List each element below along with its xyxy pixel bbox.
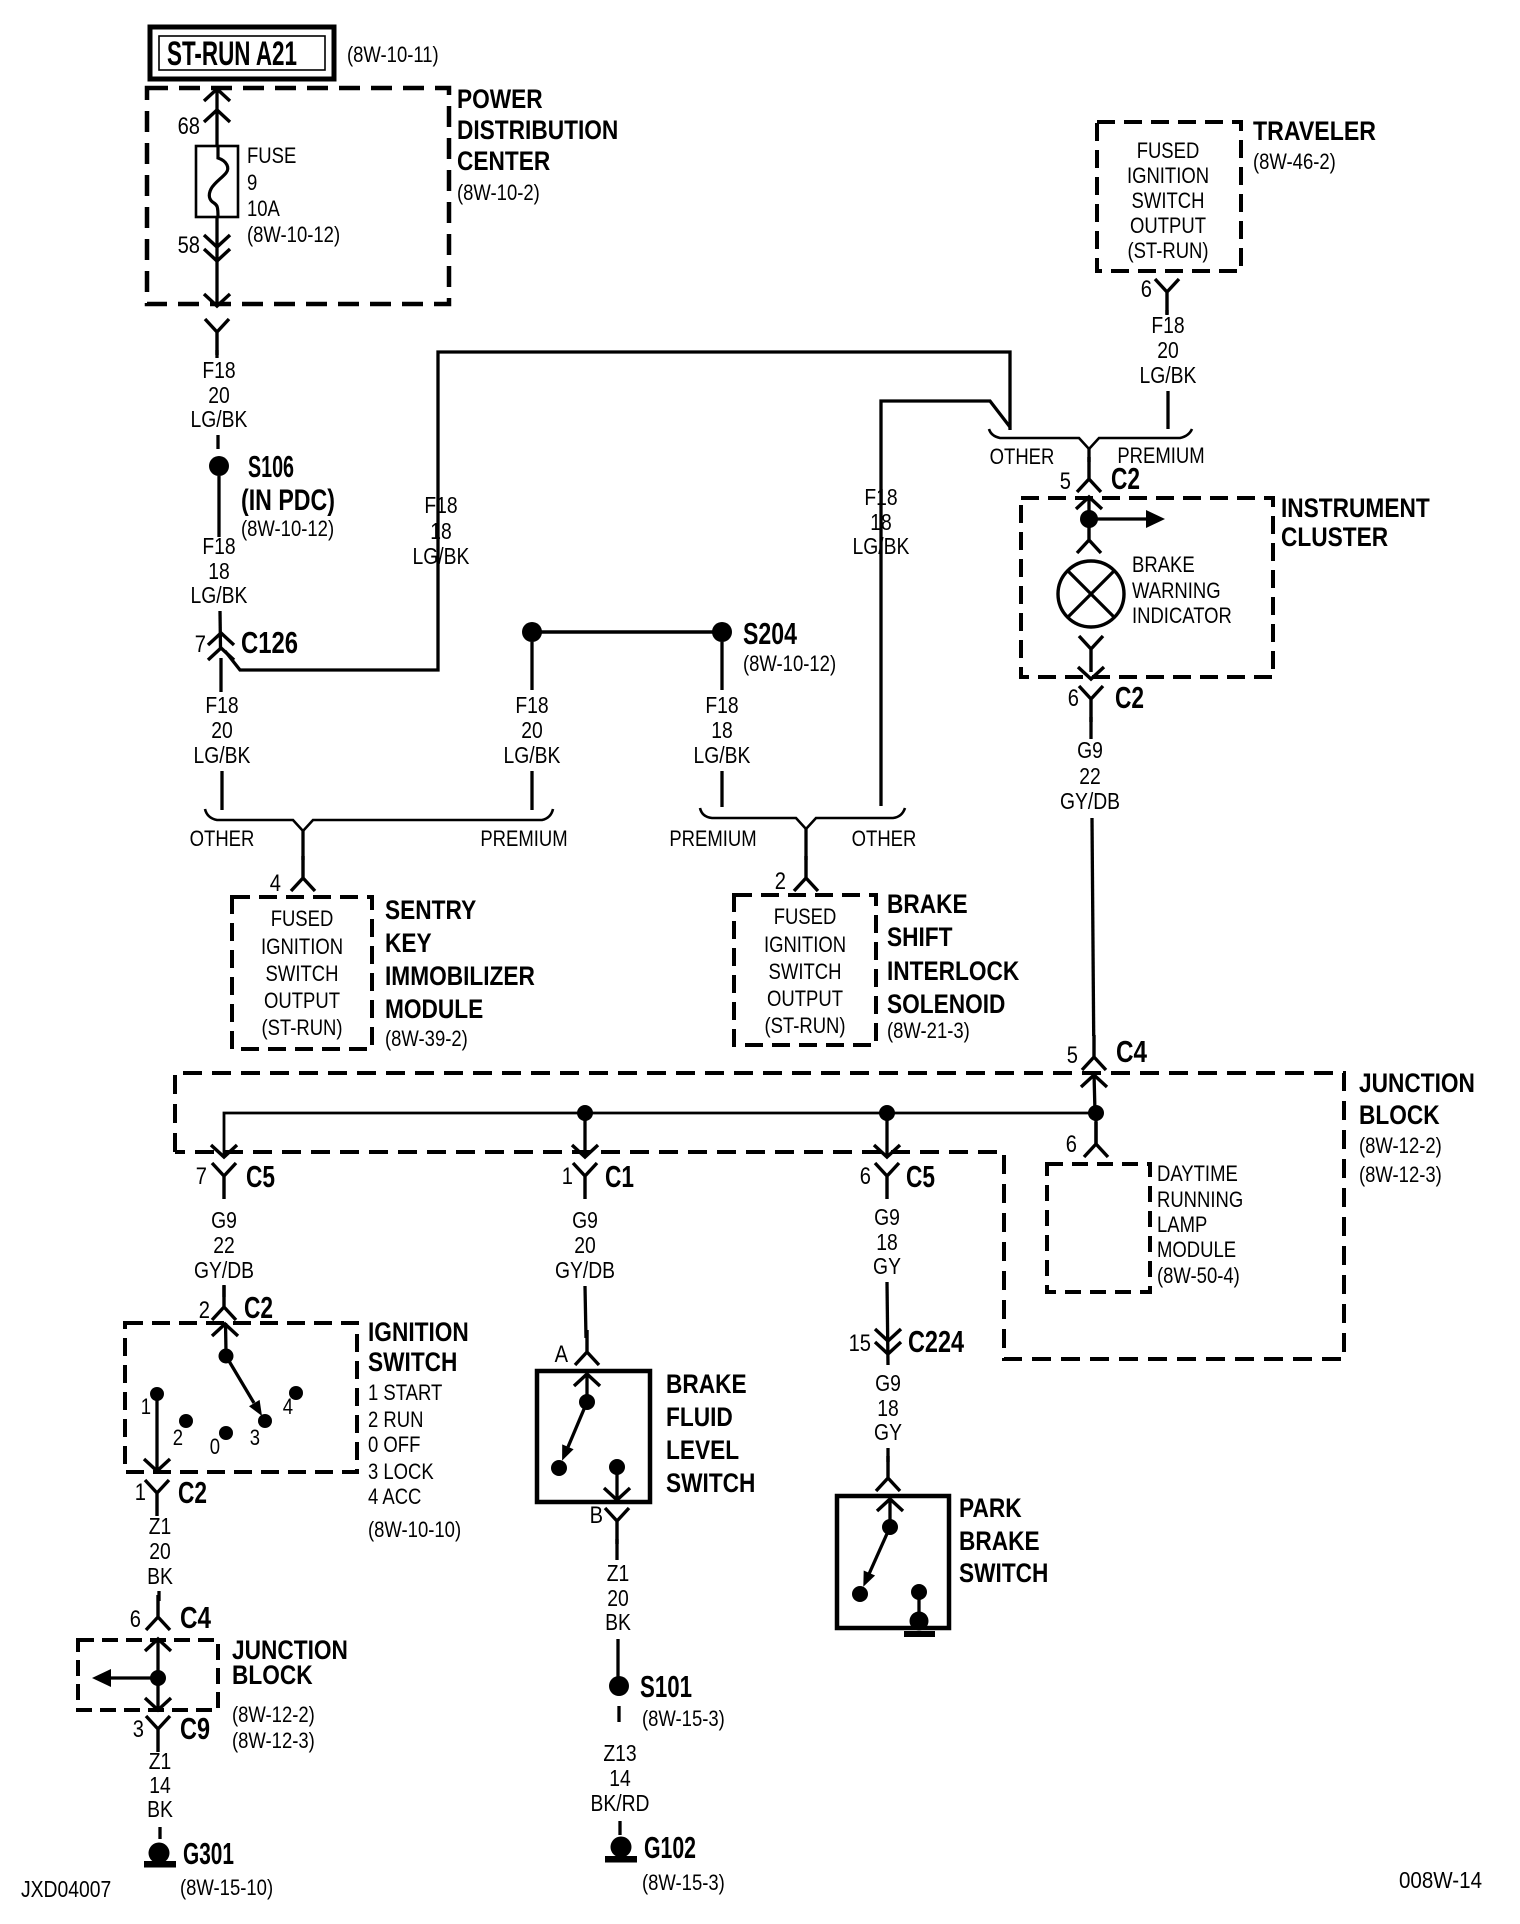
svg-text:GY: GY: [873, 1253, 901, 1279]
wire to premium hook: [530, 771, 533, 810]
wire fuse to PDC exit (pin 58): [215, 217, 218, 304]
node bus splice DRL: [1088, 1105, 1104, 1121]
wire inside junction block 2: [156, 1640, 159, 1709]
svg-text:22: 22: [1079, 763, 1101, 789]
label PARK BRAKE SWITCH: [959, 1493, 1048, 1588]
svg-text:18: 18: [208, 558, 230, 584]
svg-text:10A: 10A: [247, 196, 280, 221]
svg-text:LG/BK: LG/BK: [194, 742, 251, 768]
svg-text:ST-RUN A21: ST-RUN A21: [167, 35, 297, 73]
node cluster splice with arrow: [1080, 510, 1165, 528]
wire label G9 18 GY: [874, 1370, 902, 1445]
wire to premium hook: [1166, 391, 1169, 429]
svg-text:(8W-10-12): (8W-10-12): [743, 651, 836, 676]
svg-text:C9: C9: [180, 1711, 210, 1746]
svg-text:C5: C5: [246, 1159, 275, 1194]
svg-text:(8W-10-12): (8W-10-12): [247, 222, 340, 247]
contact 4: [289, 1386, 303, 1400]
svg-text:(8W-12-3): (8W-12-3): [1359, 1162, 1442, 1187]
svg-text:C2: C2: [1111, 461, 1140, 496]
label IGNITION SWITCH positions: [368, 1317, 469, 1542]
svg-text:DAYTIME: DAYTIME: [1157, 1161, 1238, 1186]
svg-text:S106: S106: [248, 449, 294, 484]
label INSTRUMENT CLUSTER: [1281, 493, 1430, 552]
wire into switch: [224, 1323, 228, 1352]
svg-text:3: 3: [133, 1716, 144, 1743]
svg-text:(8W-39-2): (8W-39-2): [385, 1026, 468, 1051]
connector A: [575, 1330, 599, 1365]
svg-text:5: 5: [1060, 468, 1071, 495]
wire to C126: [218, 611, 222, 648]
wire into junction block: [1094, 1073, 1095, 1113]
svg-text:GY/DB: GY/DB: [194, 1257, 254, 1283]
text FUSED IGNITION SWITCH OUTPUT (ST-RUN): [1127, 138, 1209, 263]
daytime running lamp module box: [1047, 1164, 1150, 1292]
label S204: [743, 616, 836, 676]
wire below C2: [1089, 717, 1092, 739]
svg-text:SWITCH: SWITCH: [769, 959, 842, 984]
svg-text:3: 3: [250, 1425, 260, 1450]
svg-text:SWITCH: SWITCH: [266, 961, 339, 986]
svg-text:20: 20: [521, 717, 543, 743]
switch contact top: [579, 1394, 595, 1410]
brake warning indicator lamp: [1058, 561, 1124, 627]
park switch contact right: [911, 1584, 927, 1600]
svg-text:0: 0: [210, 1434, 220, 1459]
wire label G9 22 GY/DB: [1060, 737, 1120, 814]
connector into park brake switch: [876, 1456, 900, 1491]
svg-text:18: 18: [877, 1395, 899, 1421]
svg-text:POWER: POWER: [457, 84, 543, 114]
svg-text:5: 5: [1067, 1042, 1078, 1069]
svg-text:S101: S101: [640, 1669, 692, 1704]
wire label Z13 14 BK/RD: [591, 1740, 650, 1816]
wire segment to splice: [216, 435, 219, 449]
svg-text:0 OFF: 0 OFF: [368, 1432, 420, 1457]
svg-text:F18: F18: [202, 533, 235, 559]
svg-text:(8W-15-10): (8W-15-10): [180, 1875, 273, 1900]
svg-text:PREMIUM: PREMIUM: [480, 826, 567, 851]
svg-text:18: 18: [876, 1229, 898, 1255]
svg-text:3 LOCK: 3 LOCK: [368, 1459, 434, 1484]
svg-text:4 ACC: 4 ACC: [368, 1484, 421, 1509]
svg-text:GY/DB: GY/DB: [1060, 788, 1120, 814]
svg-text:(ST-RUN): (ST-RUN): [1127, 238, 1208, 263]
svg-text:2: 2: [775, 868, 786, 895]
svg-text:(8W-10-2): (8W-10-2): [457, 180, 540, 205]
svg-text:INDICATOR: INDICATOR: [1132, 603, 1232, 628]
svg-text:6: 6: [1141, 276, 1152, 303]
label BRAKE WARNING INDICATOR: [1132, 552, 1232, 628]
arrow into cluster: [1076, 497, 1102, 509]
svg-text:BK: BK: [147, 1796, 173, 1822]
wire label Z1 14 BK: [147, 1748, 173, 1822]
wire to C224: [887, 1282, 888, 1365]
svg-text:OUTPUT: OUTPUT: [767, 986, 843, 1011]
svg-text:SWITCH: SWITCH: [1132, 188, 1205, 213]
svg-text:DISTRIBUTION: DISTRIBUTION: [457, 115, 618, 145]
svg-text:(IN PDC): (IN PDC): [241, 484, 335, 517]
svg-text:LG/BK: LG/BK: [413, 543, 470, 569]
svg-text:22: 22: [213, 1232, 235, 1258]
arrow out of PDC: [204, 294, 230, 306]
svg-text:MODULE: MODULE: [1157, 1237, 1236, 1262]
arrow into junction block 2: [145, 1639, 171, 1651]
ignition switch box: [125, 1323, 357, 1472]
svg-text:20: 20: [208, 382, 230, 408]
svg-text:IGNITION: IGNITION: [764, 932, 846, 957]
wire C1 drop: [583, 1113, 586, 1156]
svg-text:B: B: [590, 1502, 603, 1529]
svg-text:F18: F18: [864, 484, 897, 510]
svg-text:C2: C2: [178, 1475, 207, 1510]
svg-text:(8W-12-2): (8W-12-2): [232, 1702, 315, 1727]
svg-text:G9: G9: [1077, 737, 1103, 763]
wire to ignition C2: [222, 1286, 225, 1297]
svg-text:JXD04007: JXD04007: [21, 1876, 111, 1902]
svg-text:G9: G9: [874, 1204, 900, 1230]
svg-text:(8W-21-3): (8W-21-3): [887, 1018, 970, 1043]
svg-text:S204: S204: [743, 616, 798, 651]
wire B contact down: [615, 1467, 618, 1499]
svg-text:C5: C5: [906, 1159, 935, 1194]
wire DRL drop: [1094, 1113, 1097, 1144]
option bus bracket (instrument cluster): [989, 429, 1192, 462]
wire C5 right drop: [885, 1113, 888, 1156]
svg-text:LG/BK: LG/BK: [191, 582, 248, 608]
svg-text:FUSED: FUSED: [271, 906, 334, 931]
label POWER DISTRIBUTION CENTER: [457, 84, 618, 205]
svg-text:LG/BK: LG/BK: [191, 406, 248, 432]
wire down: [615, 1539, 618, 1560]
svg-text:BRAKE: BRAKE: [1132, 552, 1195, 577]
pin 58 arrows: [204, 235, 230, 247]
connector below brake fluid switch: [605, 1508, 629, 1544]
svg-text:Z1: Z1: [149, 1513, 172, 1539]
svg-text:OTHER: OTHER: [990, 444, 1055, 469]
wire to internal ground: [917, 1592, 920, 1613]
svg-text:F18: F18: [515, 692, 548, 718]
svg-text:(8W-50-4): (8W-50-4): [1157, 1263, 1240, 1288]
svg-text:BLOCK: BLOCK: [1359, 1100, 1440, 1130]
wire branch C126 to instrument cluster run: [225, 352, 1010, 670]
svg-text:SOLENOID: SOLENOID: [887, 989, 1005, 1019]
svg-text:LG/BK: LG/BK: [1140, 362, 1197, 388]
wire S204 right leg: [720, 642, 723, 690]
brake shift interlock solenoid box: [734, 895, 876, 1045]
option bus bracket (sentry key): [205, 809, 553, 860]
switch contact B: [609, 1459, 625, 1475]
svg-text:CENTER: CENTER: [457, 146, 550, 176]
connector C126 arrows: [208, 633, 234, 645]
switch blade arrow: [562, 1402, 587, 1461]
svg-text:18: 18: [870, 509, 892, 535]
svg-text:G9: G9: [875, 1370, 901, 1396]
wire to S101: [616, 1639, 619, 1678]
connector C4 lower: [146, 1595, 170, 1630]
wire label F18 18 LG/BK: [191, 533, 248, 608]
svg-text:Z13: Z13: [603, 1740, 636, 1766]
connector C4: [1082, 1035, 1106, 1070]
svg-text:7: 7: [195, 631, 206, 658]
wire down to option bus: [220, 771, 223, 810]
arrow into park brake switch: [877, 1499, 903, 1511]
svg-text:1: 1: [562, 1163, 573, 1190]
svg-text:OTHER: OTHER: [190, 826, 255, 851]
fuse value label: [247, 143, 340, 247]
svg-text:Z1: Z1: [149, 1748, 172, 1774]
connector C2 into cluster: [1077, 457, 1101, 492]
svg-text:(ST-RUN): (ST-RUN): [261, 1015, 342, 1040]
wire stub below S101: [617, 1706, 620, 1722]
svg-text:20: 20: [574, 1232, 596, 1258]
svg-text:PREMIUM: PREMIUM: [669, 826, 756, 851]
node bus splice C1: [577, 1105, 593, 1121]
arrow out of ignition switch: [144, 1459, 170, 1471]
connector into brake shift solenoid: [794, 856, 818, 891]
svg-text:INTERLOCK: INTERLOCK: [887, 956, 1020, 986]
svg-text:20: 20: [607, 1585, 629, 1611]
contact 0: [219, 1426, 233, 1440]
svg-text:6: 6: [130, 1606, 141, 1633]
wire to brake fluid switch: [585, 1286, 586, 1338]
svg-text:GY: GY: [874, 1419, 902, 1445]
svg-text:C126: C126: [241, 625, 298, 660]
svg-text:LG/BK: LG/BK: [694, 742, 751, 768]
wire junction block bus: [224, 1113, 1096, 1156]
svg-text:18: 18: [430, 518, 452, 544]
svg-text:A: A: [555, 1341, 568, 1368]
svg-text:4: 4: [270, 870, 281, 897]
svg-text:9: 9: [247, 170, 257, 195]
arrow out of junction block (C5 right): [874, 1145, 900, 1157]
junction block outline: [175, 1073, 1344, 1359]
wire to C4: [157, 1591, 160, 1601]
node bus splice C5 right: [879, 1105, 895, 1121]
connector below traveler: [1155, 279, 1179, 315]
svg-text:SENTRY: SENTRY: [385, 895, 476, 925]
wire label F18 18 LG/BK (other drop): [853, 484, 910, 559]
wire to park brake switch: [886, 1448, 889, 1462]
connector to lamp: [1077, 518, 1101, 553]
park switch contact top: [882, 1519, 898, 1535]
svg-text:IGNITION: IGNITION: [1127, 163, 1209, 188]
svg-text:20: 20: [211, 717, 233, 743]
wire into switch: [585, 1375, 588, 1398]
svg-text:4: 4: [283, 1394, 293, 1419]
ground park brake: [904, 1612, 935, 1638]
svg-text:C4: C4: [180, 1600, 212, 1635]
svg-text:JUNCTION: JUNCTION: [1359, 1068, 1475, 1098]
svg-text:IMMOBILIZER: IMMOBILIZER: [385, 961, 535, 991]
svg-text:BRAKE: BRAKE: [887, 889, 968, 919]
svg-text:FUSED: FUSED: [774, 904, 837, 929]
junction block 2 box: [78, 1640, 218, 1710]
fuse 9 10A: [196, 146, 238, 217]
svg-text:G102: G102: [644, 1830, 696, 1865]
svg-text:LAMP: LAMP: [1157, 1212, 1207, 1237]
svg-text:IGNITION: IGNITION: [261, 934, 343, 959]
text FUSED IGNITION SWITCH OUTPUT (ST-RUN): [261, 906, 343, 1040]
contact 1: [150, 1387, 164, 1401]
connector C2 below ignition: [145, 1480, 169, 1516]
svg-text:BRAKE: BRAKE: [666, 1369, 747, 1399]
label G301: [180, 1836, 273, 1900]
wire label F18 20 LG/BK (to sentry bus): [194, 692, 251, 768]
svg-text:CLUSTER: CLUSTER: [1281, 522, 1388, 552]
ground G301: [144, 1843, 176, 1868]
wire label F18 20 LG/BK (S204 left): [504, 692, 561, 768]
svg-text:68: 68: [178, 113, 200, 140]
option bus bracket (brake shift): [700, 808, 905, 860]
wire stub to G102: [618, 1821, 621, 1835]
svg-text:14: 14: [149, 1772, 171, 1798]
svg-text:BK/RD: BK/RD: [591, 1790, 650, 1816]
wire to F18 label: [215, 350, 218, 358]
svg-text:GY/DB: GY/DB: [555, 1257, 615, 1283]
svg-text:LEVEL: LEVEL: [666, 1435, 739, 1465]
wire S204 left leg: [530, 642, 533, 690]
wire into switch: [888, 1500, 891, 1523]
svg-text:OTHER: OTHER: [852, 826, 917, 851]
svg-text:IGNITION: IGNITION: [368, 1317, 469, 1347]
arrow into junction block: [1081, 1075, 1107, 1087]
arrow out of junction block 2: [145, 1698, 171, 1710]
label TRAVELER: [1253, 116, 1376, 174]
svg-text:LG/BK: LG/BK: [504, 742, 561, 768]
svg-text:TRAVELER: TRAVELER: [1253, 116, 1376, 146]
svg-text:C2: C2: [1115, 680, 1144, 715]
svg-text:(8W-15-3): (8W-15-3): [642, 1870, 725, 1895]
label JUNCTION BLOCK 2: [232, 1635, 348, 1753]
connector C2 ignition: [212, 1285, 236, 1320]
contact 2: [179, 1414, 193, 1428]
label SENTRY KEY IMMOBILIZER MODULE: [385, 895, 535, 1051]
wire contact 1 down: [155, 1394, 158, 1470]
ground G102: [605, 1837, 637, 1863]
svg-text:FUSED: FUSED: [1137, 138, 1200, 163]
svg-text:G9: G9: [572, 1207, 598, 1233]
arrow out of junction block (C5 left): [211, 1145, 237, 1157]
svg-text:(8W-46-2): (8W-46-2): [1253, 149, 1336, 174]
wire PDC feed (pin 68 to fuse): [215, 88, 218, 146]
svg-text:6: 6: [860, 1163, 871, 1190]
svg-text:F18: F18: [1151, 312, 1184, 338]
svg-text:WARNING: WARNING: [1132, 578, 1221, 603]
svg-text:14: 14: [609, 1765, 631, 1791]
svg-text:SWITCH: SWITCH: [959, 1558, 1048, 1588]
svg-text:(8W-10-10): (8W-10-10): [368, 1517, 461, 1542]
svg-text:OUTPUT: OUTPUT: [264, 988, 340, 1013]
label S101: [640, 1669, 725, 1731]
brake fluid level switch box: [537, 1371, 650, 1502]
connector C9: [146, 1716, 170, 1752]
sentry key immobilizer module box: [232, 897, 372, 1049]
arrow into ignition switch: [212, 1324, 238, 1336]
wire label F18 20 LG/BK: [191, 357, 248, 432]
svg-text:6: 6: [1066, 1131, 1077, 1158]
svg-text:Z1: Z1: [607, 1560, 630, 1586]
wire label G9 20 GY/DB: [555, 1207, 615, 1283]
svg-text:1: 1: [141, 1394, 151, 1419]
splice S106: [209, 456, 229, 476]
switch contact bottom left: [551, 1460, 567, 1476]
wire long run to junction block: [1092, 818, 1094, 1036]
svg-text:FUSE: FUSE: [247, 143, 296, 168]
wire to premium hook 2: [720, 771, 723, 807]
svg-text:LG/BK: LG/BK: [853, 533, 910, 559]
wire below C126: [219, 658, 222, 692]
wire brake shift other feed: [881, 401, 1010, 806]
svg-text:KEY: KEY: [385, 928, 432, 958]
arrow into brake fluid switch: [574, 1374, 600, 1386]
traveler fused ignition switch output box: [1097, 122, 1241, 271]
wire traveler down: [1165, 310, 1168, 314]
label BRAKE SHIFT INTERLOCK SOLENOID: [887, 889, 1020, 1043]
arrow out of junction block (C1): [572, 1145, 598, 1157]
node junction block 2 splice with arrow: [92, 1669, 166, 1687]
park switch blade arrow: [863, 1527, 890, 1587]
wire into cluster: [1087, 498, 1090, 519]
svg-text:F18: F18: [424, 492, 457, 518]
svg-text:BRAKE: BRAKE: [959, 1526, 1040, 1556]
svg-text:BLOCK: BLOCK: [232, 1660, 313, 1690]
connector C5 left: [212, 1163, 236, 1199]
svg-text:2: 2: [199, 1297, 210, 1324]
label DAYTIME RUNNING LAMP MODULE: [1157, 1161, 1243, 1288]
label G102: [642, 1830, 725, 1895]
connector below PDC: [205, 319, 229, 355]
svg-text:7: 7: [196, 1163, 207, 1190]
svg-text:2 RUN: 2 RUN: [368, 1407, 423, 1432]
svg-text:58: 58: [178, 232, 200, 259]
switch wiper arrow: [226, 1356, 262, 1416]
splice S204: [522, 622, 732, 642]
svg-text:6: 6: [1068, 685, 1079, 712]
wire stub to ground: [158, 1827, 161, 1839]
svg-text:RUNNING: RUNNING: [1157, 1187, 1243, 1212]
label JUNCTION BLOCK: [1359, 1068, 1475, 1187]
svg-text:C2: C2: [244, 1290, 273, 1325]
svg-text:OUTPUT: OUTPUT: [1130, 213, 1206, 238]
connector DRL: [1084, 1122, 1108, 1157]
svg-text:(8W-12-3): (8W-12-3): [232, 1728, 315, 1753]
svg-text:SWITCH: SWITCH: [368, 1347, 457, 1377]
wire label F18 18 LG/BK (S204 right): [694, 692, 751, 768]
park switch contact bottom left: [852, 1586, 868, 1602]
wire label F18 18 LG/BK (riser): [413, 492, 470, 569]
wire S106 down: [217, 476, 220, 537]
instrument cluster box: [1021, 498, 1273, 677]
svg-text:2: 2: [173, 1425, 183, 1450]
svg-text:MODULE: MODULE: [385, 994, 483, 1024]
connector into sentry module: [291, 856, 315, 891]
wire label Z1 20 BK: [605, 1560, 631, 1635]
svg-text:F18: F18: [705, 692, 738, 718]
svg-text:C1: C1: [605, 1159, 634, 1194]
svg-text:(ST-RUN): (ST-RUN): [764, 1013, 845, 1038]
svg-text:C224: C224: [908, 1324, 965, 1359]
svg-text:(8W-15-3): (8W-15-3): [642, 1706, 725, 1731]
splice S101: [609, 1676, 629, 1696]
arrow out of brake fluid switch: [604, 1488, 630, 1500]
svg-text:INSTRUMENT: INSTRUMENT: [1281, 493, 1430, 523]
svg-text:C4: C4: [1116, 1034, 1148, 1069]
wire label F18 20 LG/BK (traveler): [1140, 312, 1197, 388]
pin 68 arrows: [204, 89, 230, 101]
wire label Z1 20 BK: [147, 1513, 173, 1589]
text FUSED IGNITION SWITCH OUTPUT (ST-RUN): [764, 904, 846, 1038]
